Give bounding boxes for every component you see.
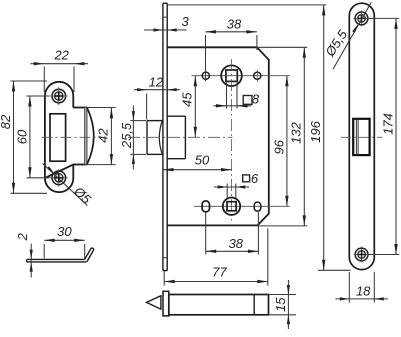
faceplate bottom hole (355, 248, 368, 261)
svg-text:77: 77 (212, 265, 227, 280)
lower holes centerline (194, 205, 290, 207)
bracket lip (85, 248, 94, 262)
faceplate top hole (355, 12, 368, 25)
strike plate lip flat band (85, 108, 87, 165)
dimension 174 (368, 17, 399, 19)
dimension 45 (194, 76, 196, 138)
svg-text:38: 38 (227, 17, 242, 32)
latch head side view (147, 120, 163, 122)
strip hole tick top (163, 16, 167, 18)
faceplate centerline (341, 136, 383, 138)
dimension 22 (43, 67, 45, 93)
dimension 3 (144, 29, 187, 31)
bracket bar (27, 258, 85, 260)
svg-text:25,5: 25,5 (119, 122, 134, 149)
strike plate top screw hole (52, 89, 66, 103)
dimension 38 top (205, 35, 207, 81)
svg-text:96: 96 (271, 139, 286, 154)
dimension 25.5 (130, 120, 146, 122)
svg-text:30: 30 (57, 224, 72, 239)
dimension square 8 (226, 83, 228, 109)
lock body outline (167, 47, 269, 225)
dimension 96 (286, 76, 288, 207)
svg-text:3: 3 (181, 14, 189, 29)
latch bolt tip bottom view (147, 296, 161, 310)
faceplate latch cutout (353, 119, 369, 155)
svg-text:6: 6 (251, 171, 259, 186)
strike plate lip curve (87, 108, 94, 165)
latch shaft bottom view (169, 295, 269, 315)
svg-text:60: 60 (14, 129, 29, 144)
upper holes centerline (192, 75, 290, 77)
svg-text:38: 38 (229, 236, 244, 251)
dimension 42 (87, 107, 116, 109)
svg-text:42: 42 (96, 128, 111, 143)
dimension 15 (287, 280, 289, 329)
dimension 38 bottom (205, 213, 207, 255)
svg-text:50: 50 (195, 153, 210, 168)
dimension square 6 (226, 184, 228, 198)
latch faceplate section (163, 291, 169, 316)
dimension 12 (146, 94, 148, 120)
svg-text:22: 22 (53, 47, 69, 62)
svg-text:8: 8 (252, 91, 260, 106)
dimension 77 (163, 272, 165, 286)
spindle hub upper (221, 65, 242, 86)
svg-text:15: 15 (273, 297, 288, 312)
upper right hole (254, 72, 261, 79)
svg-text:82: 82 (0, 114, 13, 129)
square hole 8mm (226, 70, 237, 81)
dimension 30 (43, 244, 45, 258)
svg-text:2: 2 (15, 232, 30, 241)
dimension 82 (11, 80, 48, 82)
lower right oval hole (254, 202, 261, 211)
dimension 196 (167, 4, 326, 6)
svg-text:12: 12 (149, 75, 164, 90)
faceplate strip side view (162, 3, 164, 270)
spindle hub lower (223, 198, 240, 215)
upper left hole (202, 72, 209, 79)
dimension 2 (30, 244, 32, 278)
svg-text:45: 45 (179, 92, 194, 107)
latch bevel curve (159, 121, 162, 154)
leader diameter 5.5 (333, 2, 371, 69)
leader diameter 5 (43, 163, 88, 205)
strike plate step top edge (73, 107, 87, 109)
strike plate horizontal centerline (42, 136, 100, 138)
strike plate bottom screw hole (52, 171, 66, 185)
latch body side view (167, 115, 185, 117)
svg-text:18: 18 (356, 284, 371, 299)
svg-text:174: 174 (381, 113, 396, 135)
dimension 60 (27, 95, 50, 97)
lower left oval hole (202, 201, 209, 212)
square hole 6mm (227, 202, 236, 211)
faceplate outline (349, 3, 374, 269)
strike plate cutout (50, 114, 66, 161)
strike plate step bottom edge (73, 164, 87, 166)
strip hole tick bottom (163, 257, 167, 259)
dimension 132 (257, 46, 307, 48)
latch centerline (128, 136, 233, 138)
strike plate outline B1 (45, 82, 73, 192)
dimension 50 (163, 169, 232, 171)
svg-text:196: 196 (308, 120, 323, 142)
dimension 18 (348, 272, 350, 303)
spindle vertical centerline (231, 59, 233, 221)
svg-text:132: 132 (289, 121, 304, 143)
